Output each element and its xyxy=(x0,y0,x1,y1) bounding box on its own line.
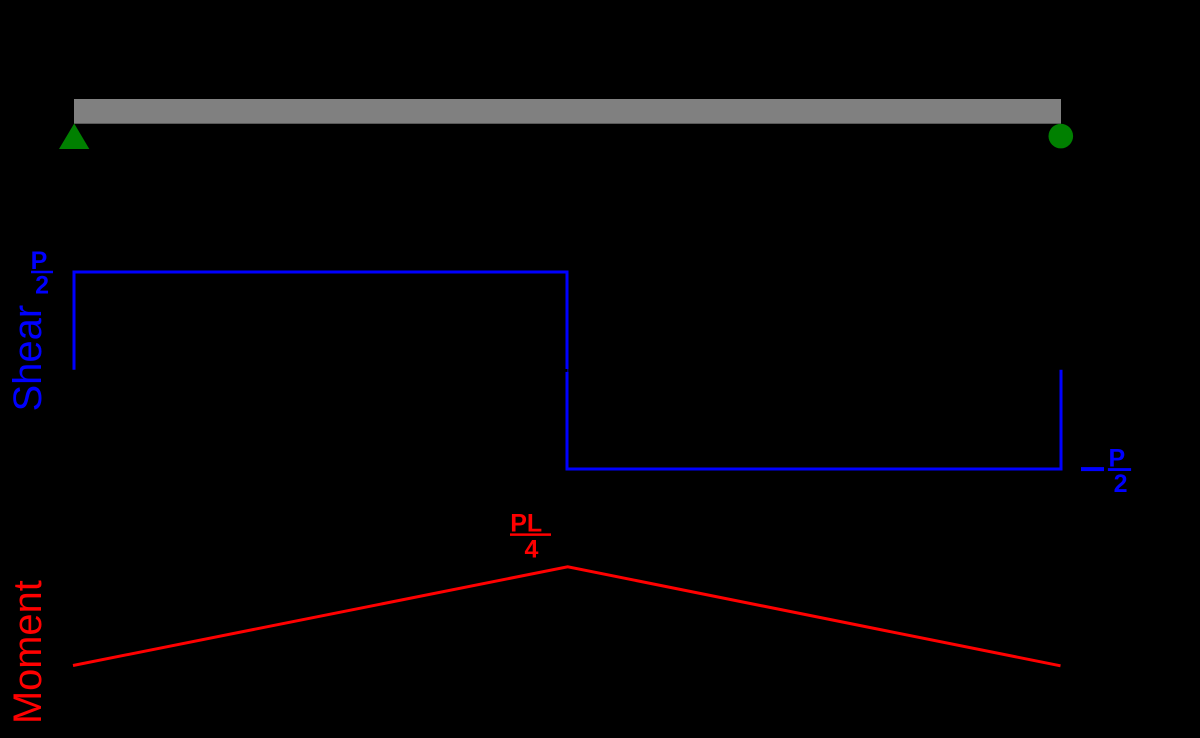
svg-text:2: 2 xyxy=(1114,470,1128,498)
label P/2 (shear positive) xyxy=(31,247,53,300)
beam xyxy=(74,99,1061,124)
shear trace xyxy=(74,272,1061,469)
pin support (left, green triangle) xyxy=(59,124,89,150)
roller support (right, green circle) xyxy=(1049,124,1074,149)
svg-text:Moment: Moment xyxy=(6,580,50,724)
svg-text:2: 2 xyxy=(35,271,49,299)
label PL/4 (moment peak) xyxy=(510,510,551,564)
svg-text:Shear: Shear xyxy=(6,305,50,412)
shear axis tick (black over trace) xyxy=(564,369,567,372)
moment trace xyxy=(73,567,1061,666)
svg-text:P: P xyxy=(1108,444,1125,472)
label -P/2 (shear negative) xyxy=(1081,444,1131,498)
svg-text:4: 4 xyxy=(525,536,539,564)
